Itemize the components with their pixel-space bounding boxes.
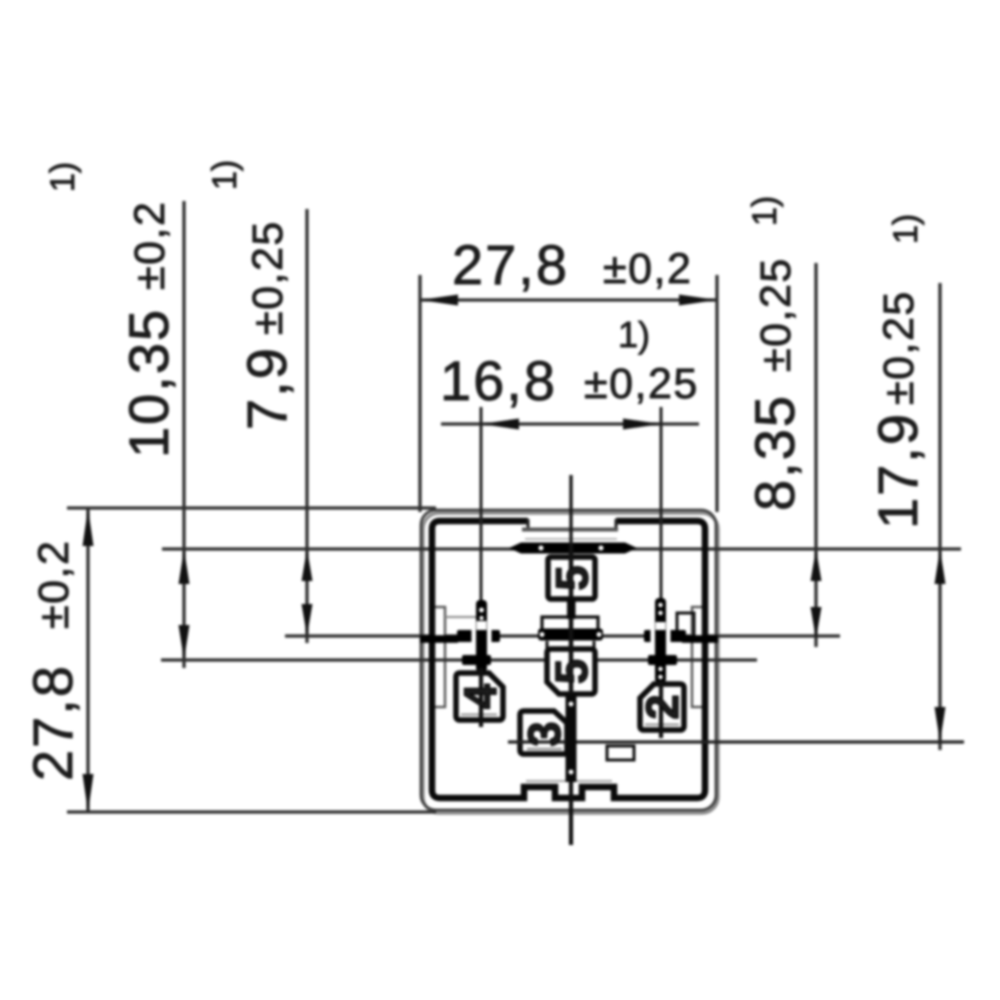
svg-text:5: 5 bbox=[547, 565, 598, 590]
svg-text:1): 1) bbox=[746, 196, 784, 226]
svg-text:1): 1) bbox=[206, 160, 244, 190]
svg-text:7,9: 7,9 bbox=[235, 346, 298, 430]
svg-text:±0,25: ±0,25 bbox=[875, 290, 923, 405]
svg-text:1): 1) bbox=[44, 162, 82, 192]
svg-text:±0,2: ±0,2 bbox=[30, 540, 78, 629]
svg-text:3: 3 bbox=[519, 721, 570, 746]
svg-text:8,35: 8,35 bbox=[743, 394, 806, 511]
svg-text:2: 2 bbox=[637, 694, 688, 719]
svg-text:±0,25: ±0,25 bbox=[244, 220, 292, 335]
svg-text:±0,25: ±0,25 bbox=[584, 360, 699, 408]
svg-text:±0,2: ±0,2 bbox=[603, 245, 692, 293]
svg-text:1): 1) bbox=[618, 314, 650, 355]
svg-text:27,8: 27,8 bbox=[21, 664, 84, 781]
svg-text:±0,25: ±0,25 bbox=[752, 257, 800, 372]
svg-text:5: 5 bbox=[546, 659, 597, 684]
svg-text:1): 1) bbox=[887, 214, 925, 244]
svg-text:10,35: 10,35 bbox=[117, 308, 180, 458]
svg-text:4: 4 bbox=[455, 684, 506, 709]
svg-text:16,8: 16,8 bbox=[440, 349, 557, 412]
svg-text:±0,2: ±0,2 bbox=[126, 201, 174, 290]
svg-text:17,9: 17,9 bbox=[866, 412, 929, 529]
svg-text:27,8: 27,8 bbox=[452, 233, 569, 296]
